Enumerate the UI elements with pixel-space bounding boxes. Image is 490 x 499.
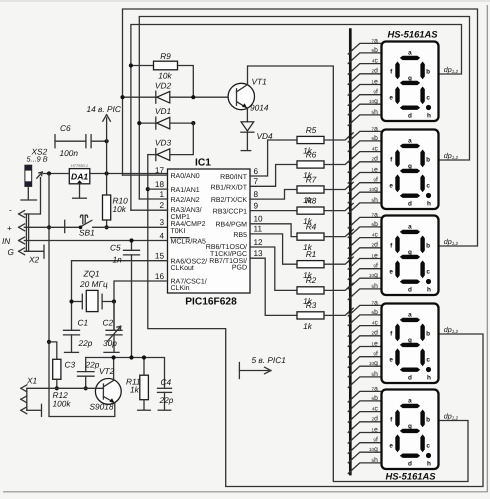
segment b of display HS1 <box>420 62 424 80</box>
svg-text:7a: 7a <box>372 385 379 392</box>
resistor R9 <box>131 65 154 67</box>
connector X1 <box>21 385 27 392</box>
segment f of display HS1 <box>395 62 399 80</box>
junction C3 bottom <box>84 386 88 390</box>
segment c of display HS3 <box>420 260 424 278</box>
diode VD4 <box>246 108 248 122</box>
svg-text:RB2/TX/CK: RB2/TX/CK <box>211 196 248 204</box>
svg-text:CMP1: CMP1 <box>171 214 191 221</box>
svg-text:12: 12 <box>254 238 264 247</box>
wire DA1 ground lead <box>79 184 81 198</box>
diode VD2 <box>123 96 156 98</box>
junction VD3/pin18 vertical <box>146 187 150 191</box>
svg-text:7: 7 <box>254 177 259 186</box>
svg-text:PIC16F628: PIC16F628 <box>185 297 237 308</box>
svg-text:d: d <box>408 374 412 381</box>
pin G of X2 <box>19 248 25 255</box>
svg-text:10g: 10g <box>369 98 378 105</box>
svg-text:22p: 22p <box>78 338 93 348</box>
svg-text:b: b <box>426 242 430 249</box>
wire segment g of display HS4 <box>350 366 381 375</box>
svg-text:7a: 7a <box>372 299 379 306</box>
wire IC to R6 <box>250 165 297 187</box>
diode VD1 <box>139 122 156 124</box>
wire segment c of display HS4 <box>350 326 381 335</box>
svg-text:100k: 100k <box>53 399 72 409</box>
svg-text:R9: R9 <box>160 51 171 61</box>
svg-text:R3: R3 <box>306 300 317 310</box>
resistor R10 <box>103 195 111 220</box>
junction C5 top <box>129 238 133 242</box>
segment a of display HS5 <box>400 404 420 408</box>
junction VT2 collector node <box>112 355 116 359</box>
wire segment a of display HS2 <box>350 131 381 140</box>
wire +V vertical at DA1 output <box>106 141 108 195</box>
svg-text:4c: 4c <box>372 406 379 413</box>
svg-text:1e: 1e <box>372 426 379 433</box>
svg-text:VT2: VT2 <box>99 366 115 376</box>
wire IC to R2 <box>250 247 297 290</box>
wire segment g of display HS2 <box>350 192 381 201</box>
svg-text:RB4/PGM: RB4/PGM <box>215 220 247 228</box>
svg-text:HT7550-1: HT7550-1 <box>71 164 88 168</box>
resistor R6 <box>297 161 324 168</box>
bus tick of R6 <box>348 157 353 162</box>
svg-text:5 в. PIC1: 5 в. PIC1 <box>252 355 286 365</box>
segment a of display HS2 <box>400 144 420 148</box>
wire IC pin2 stub <box>131 209 168 211</box>
junction VD2 right / R9 <box>191 95 195 99</box>
wire segment e of display HS3 <box>350 259 381 268</box>
svg-text:RA2/AN2: RA2/AN2 <box>171 196 200 204</box>
svg-text:9f: 9f <box>373 177 378 184</box>
svg-text:10g: 10g <box>369 446 378 453</box>
wire XS2 output to DA1 <box>44 173 70 175</box>
wire segment c of display HS3 <box>350 238 381 247</box>
wire X2 G stub <box>24 250 43 252</box>
svg-text:4: 4 <box>159 231 164 240</box>
svg-text:g: g <box>408 249 412 256</box>
svg-text:13: 13 <box>254 249 264 258</box>
segment c of display HS1 <box>420 86 424 104</box>
junction R9 left on net C <box>129 63 133 67</box>
pin plus of X2 <box>19 224 25 231</box>
wire segment c of display HS5 <box>350 412 381 421</box>
svg-text:PGD: PGD <box>232 264 247 271</box>
svg-text:9f: 9f <box>373 351 378 358</box>
junction C5 bottom on node row <box>129 355 133 359</box>
svg-text:20 МГц: 20 МГц <box>79 279 108 289</box>
svg-text:1k: 1k <box>303 321 313 331</box>
pin IN of X2 <box>19 237 25 244</box>
svg-text:-: - <box>9 206 12 215</box>
connector XS2 plug <box>25 165 32 186</box>
diode VD3 <box>148 154 156 156</box>
display HS3 body (HS-5161AS) <box>382 216 439 296</box>
wire segment b of display HS2 <box>350 141 381 150</box>
bus tick of R7 <box>348 182 353 187</box>
segment d of display HS4 <box>400 368 420 372</box>
wire net pin17/VD2 to display3 dp (outer top loop) <box>123 9 478 246</box>
svg-text:10g: 10g <box>369 360 378 367</box>
svg-text:1e: 1e <box>372 252 379 259</box>
svg-text:g: g <box>408 423 412 430</box>
svg-text:h: h <box>427 200 431 207</box>
svg-text:VD3: VD3 <box>155 138 172 148</box>
svg-text:10g: 10g <box>369 272 378 279</box>
wire segment a of display HS5 <box>350 391 381 400</box>
segment f of display HS3 <box>395 236 399 254</box>
svg-text:C5: C5 <box>110 243 121 253</box>
svg-text:9: 9 <box>254 201 259 210</box>
svg-text:7a: 7a <box>372 37 379 44</box>
svg-text:e: e <box>389 94 393 101</box>
junction R11 top <box>142 355 146 359</box>
segment a of display HS4 <box>400 318 420 322</box>
svg-text:c: c <box>426 356 430 363</box>
wire segment d of display HS5 <box>350 422 381 431</box>
segment h dot of display HS2 <box>426 193 431 198</box>
ground bar of C4 <box>158 409 171 411</box>
svg-text:T0KI: T0KI <box>171 228 186 235</box>
resistor R7 <box>297 186 324 193</box>
wire DA1 output <box>90 173 168 175</box>
svg-text:RA1/AN1: RA1/AN1 <box>171 186 200 194</box>
wire segment g of display HS1 <box>350 104 381 113</box>
wire net pin2/R9 to display1 dp (inner top loop) <box>131 25 462 211</box>
svg-text:4c: 4c <box>372 58 379 65</box>
svg-text:CLKin: CLKin <box>171 284 190 292</box>
svg-text:1e: 1e <box>372 78 379 85</box>
svg-text:4c: 4c <box>372 146 379 153</box>
svg-text:IC1: IC1 <box>195 158 211 169</box>
svg-text:b: b <box>426 156 430 163</box>
svg-text:RA0/AN0: RA0/AN0 <box>171 172 200 180</box>
wire segment b of display HS4 <box>350 315 381 324</box>
resistor R8 <box>297 207 324 214</box>
svg-text:5h: 5h <box>372 283 379 290</box>
svg-text:c: c <box>426 268 430 275</box>
svg-text:h: h <box>427 460 431 467</box>
segment h dot of display HS1 <box>426 105 431 110</box>
svg-text:9f: 9f <box>373 263 378 270</box>
segment d of display HS5 <box>400 454 420 458</box>
svg-text:g: g <box>408 75 412 82</box>
svg-text:CLKout: CLKout <box>171 265 194 272</box>
capacitor C2 variable <box>113 302 115 331</box>
segment d of display HS3 <box>400 280 420 284</box>
wire segment e of display HS4 <box>350 347 381 356</box>
junction DA1 output node <box>105 171 109 175</box>
wire net pin1/VD1 to display2 dp (middle top loop) <box>139 17 469 200</box>
wire segment b of display HS3 <box>350 227 381 236</box>
svg-text:C2: C2 <box>103 318 114 328</box>
ground bar of VD4 <box>241 150 251 152</box>
svg-text:R1: R1 <box>306 249 317 259</box>
svg-text:10k: 10k <box>113 204 127 214</box>
svg-text:C6: C6 <box>60 123 71 133</box>
connector X2 body <box>25 214 27 251</box>
svg-text:a: a <box>408 398 412 405</box>
segment e of display HS3 <box>395 260 399 278</box>
segment f of display HS5 <box>395 410 399 428</box>
capacitor C6 <box>54 135 56 148</box>
button SB1 <box>24 226 80 228</box>
wire segment e of display HS2 <box>350 173 381 182</box>
segment c of display HS2 <box>420 174 424 192</box>
svg-text:c: c <box>426 442 430 449</box>
svg-text:2d: 2d <box>372 416 379 423</box>
ground bar of R11 <box>138 409 151 411</box>
svg-text:h: h <box>427 374 431 381</box>
resistor R4 <box>297 233 324 240</box>
svg-text:e: e <box>389 442 393 449</box>
resistor R5 <box>297 136 324 143</box>
svg-text:1n: 1n <box>113 255 123 265</box>
wire IC to R7 <box>250 190 297 200</box>
svg-text:14 в. PIC: 14 в. PIC <box>87 104 122 114</box>
svg-text:3: 3 <box>159 218 164 227</box>
junction crystal right node <box>112 299 116 303</box>
svg-text:a: a <box>408 50 412 57</box>
segment g of display HS1 <box>400 81 420 85</box>
wire segment c of display HS1 <box>350 64 381 73</box>
wire segment f of display HS5 <box>350 443 381 452</box>
segment b of display HS4 <box>420 324 424 342</box>
junction C6 node <box>105 139 109 143</box>
svg-text:a: a <box>408 224 412 231</box>
ground bar of C2 <box>104 351 119 353</box>
svg-text:b: b <box>426 68 430 75</box>
svg-text:10: 10 <box>254 215 264 224</box>
wire +V rail down left side <box>49 174 115 417</box>
svg-text:C3: C3 <box>65 360 76 370</box>
segment b of display HS5 <box>420 410 424 428</box>
bus tick of R2 <box>348 283 353 288</box>
op-amp IC1 PIC16F628 body <box>168 169 251 293</box>
junction +V rail tap <box>47 171 51 175</box>
svg-text:MCLR/RA5: MCLR/RA5 <box>171 237 207 245</box>
wire VT2 collector <box>113 358 115 381</box>
junction VD1 left <box>137 121 141 125</box>
svg-text:h: h <box>427 112 431 119</box>
svg-text:d: d <box>408 200 412 207</box>
svg-text:R5: R5 <box>306 125 317 135</box>
capacitor C5 <box>131 241 133 251</box>
svg-text:2d: 2d <box>372 156 379 163</box>
resistor R12 <box>53 359 61 379</box>
svg-text:+: + <box>7 224 12 233</box>
wire segment f of display HS1 <box>350 95 381 104</box>
segment e of display HS1 <box>395 86 399 104</box>
svg-text:22p: 22p <box>85 360 100 370</box>
svg-text:DA1: DA1 <box>71 172 88 182</box>
wire segment f of display HS3 <box>350 269 381 278</box>
segment h dot of display HS4 <box>426 367 431 372</box>
svg-text:1: 1 <box>159 190 164 199</box>
svg-text:RB0/INT: RB0/INT <box>220 173 248 181</box>
svg-text:16: 16 <box>155 272 165 281</box>
svg-text:10g: 10g <box>369 186 378 193</box>
svg-text:R7: R7 <box>306 174 317 184</box>
svg-text:b: b <box>426 330 430 337</box>
wire segment f of display HS4 <box>350 357 381 366</box>
wire segment g of display HS5 <box>350 452 381 461</box>
resistor R1 <box>297 261 324 268</box>
svg-text:4c: 4c <box>372 320 379 327</box>
wire segment a of display HS1 <box>350 43 381 52</box>
wire segment d of display HS2 <box>350 162 381 171</box>
svg-text:7a: 7a <box>372 211 379 218</box>
display HS2 body (HS-5161AS) <box>382 130 439 210</box>
svg-text:5h: 5h <box>372 371 379 378</box>
svg-text:c: c <box>426 94 430 101</box>
display HS5 body (HS-5161AS) <box>382 390 439 470</box>
wire IC pin17 stub <box>123 174 168 176</box>
junction rail to R12 <box>47 340 51 344</box>
wire net pin18/VD3 to display4 dp (bottom outer loop) <box>148 155 483 487</box>
svg-text:30p: 30p <box>103 338 117 348</box>
svg-text:22p: 22p <box>159 395 174 405</box>
segment e of display HS2 <box>395 174 399 192</box>
wire segment a of display HS3 <box>350 217 381 226</box>
svg-text:RB1/RX/DT: RB1/RX/DT <box>210 183 247 191</box>
segment d of display HS1 <box>400 106 420 110</box>
wire segment e of display HS5 <box>350 433 381 442</box>
segment f of display HS2 <box>395 150 399 168</box>
svg-text:d: d <box>408 286 412 293</box>
wire IC to R1 <box>250 234 297 264</box>
svg-text:1k: 1k <box>130 385 140 395</box>
bus tick of R4 <box>348 229 353 234</box>
svg-text:2: 2 <box>159 201 164 210</box>
svg-text:10k: 10k <box>158 71 172 81</box>
svg-text:G: G <box>8 247 15 257</box>
power arrow 14v PIC <box>106 118 108 141</box>
wire oscillator node row <box>86 358 165 389</box>
bus tick of R5 <box>348 133 353 138</box>
svg-text:11: 11 <box>254 225 263 234</box>
wire segment d of display HS4 <box>350 336 381 345</box>
wire segment h of display HS2 <box>350 203 381 212</box>
wire IC pin15 to crystal <box>72 261 168 331</box>
svg-text:17: 17 <box>155 166 165 175</box>
svg-text:X2: X2 <box>28 255 40 265</box>
segment c of display HS4 <box>420 348 424 366</box>
wire IC pin1 stub <box>139 198 167 200</box>
wire net VT1 collector to display5 dp (bottom inner loop) <box>248 66 469 482</box>
svg-text:RB3/CCP1: RB3/CCP1 <box>213 207 247 215</box>
svg-text:R8: R8 <box>306 195 317 205</box>
resistor R3 <box>297 312 324 319</box>
svg-text:h: h <box>427 286 431 293</box>
segment h dot of display HS5 <box>426 453 431 458</box>
junction rail at plus row <box>47 225 51 229</box>
display HS1 body (HS-5161AS) <box>382 42 439 122</box>
svg-text:9014: 9014 <box>250 103 269 113</box>
svg-text:a: a <box>408 138 412 145</box>
wire X2 IN row to IC pin4 <box>24 240 167 242</box>
wire segment g of display HS3 <box>350 278 381 287</box>
svg-text:IN: IN <box>2 236 10 246</box>
junction R10 bottom <box>105 225 109 229</box>
resistor R11 <box>143 358 145 376</box>
wire segment d of display HS1 <box>350 74 381 83</box>
overline of MCLR <box>171 237 190 239</box>
crystal ZQ1 <box>72 301 83 303</box>
svg-text:RB6/T1OSO/: RB6/T1OSO/ <box>206 243 247 251</box>
svg-text:VT1: VT1 <box>252 77 267 87</box>
display HS4 body (HS-5161AS) <box>382 304 439 384</box>
svg-text:15: 15 <box>155 252 165 261</box>
wire segment f of display HS2 <box>350 183 381 192</box>
junction R12 bottom <box>55 386 59 390</box>
wire segment b of display HS1 <box>350 53 381 62</box>
svg-text:6b: 6b <box>372 135 379 142</box>
wire segment b of display HS5 <box>350 401 381 410</box>
wire segment a of display HS4 <box>350 305 381 314</box>
svg-text:6: 6 <box>254 167 259 176</box>
svg-text:R4: R4 <box>306 221 317 231</box>
svg-text:7a: 7a <box>372 125 379 132</box>
svg-text:HS-5161AS: HS-5161AS <box>388 29 439 40</box>
svg-text:6b: 6b <box>372 309 379 316</box>
svg-text:100n: 100n <box>60 148 79 158</box>
svg-text:b: b <box>426 416 430 423</box>
wire R12 top jog <box>49 342 57 359</box>
pin minus of X2 <box>19 211 25 218</box>
svg-text:e: e <box>389 356 393 363</box>
segment g of display HS2 <box>400 169 420 173</box>
power arrow 5v PIC1 <box>238 363 240 379</box>
svg-text:9f: 9f <box>373 89 378 96</box>
wire segment d of display HS3 <box>350 248 381 257</box>
svg-text:R6: R6 <box>306 149 317 159</box>
wire X2 minus to XS2 <box>24 178 40 215</box>
svg-text:c: c <box>426 182 430 189</box>
segment g of display HS4 <box>400 343 420 347</box>
segment f of display HS4 <box>395 324 399 342</box>
transistor VT1 <box>228 83 254 109</box>
wire IC pin16 to crystal <box>114 281 168 330</box>
ground bar of C1 <box>65 351 79 353</box>
bus tick of R1 <box>348 257 353 262</box>
svg-text:2d: 2d <box>372 330 379 337</box>
svg-text:8: 8 <box>254 190 259 199</box>
svg-text:X1: X1 <box>26 376 37 386</box>
capacitor C3 <box>85 358 87 372</box>
svg-text:e: e <box>389 182 393 189</box>
ground bar of DA1 <box>73 197 87 199</box>
segment c of display HS5 <box>420 434 424 452</box>
svg-text:e: e <box>389 268 393 275</box>
wire segment h of display HS5 <box>350 463 381 472</box>
svg-text:6b: 6b <box>372 395 379 402</box>
svg-text:1e: 1e <box>372 166 379 173</box>
svg-text:5h: 5h <box>372 457 379 464</box>
segment b of display HS2 <box>420 150 424 168</box>
segment a of display HS3 <box>400 230 420 234</box>
svg-text:5h: 5h <box>372 197 379 204</box>
terminator bar X1 <box>41 404 43 416</box>
XS2 centre contact <box>37 172 43 178</box>
svg-text:d: d <box>408 460 412 467</box>
wire segment c of display HS2 <box>350 152 381 161</box>
wire IC to R4 <box>250 224 297 237</box>
segment e of display HS4 <box>395 348 399 366</box>
svg-text:6b: 6b <box>372 221 379 228</box>
svg-text:9f: 9f <box>373 437 378 444</box>
